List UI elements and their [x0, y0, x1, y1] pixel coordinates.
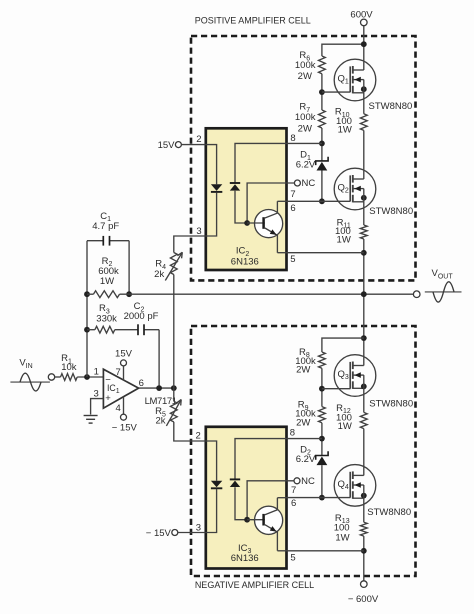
- wire D2 to Q4 gate node: [321, 465, 323, 498]
- IC2 NC terminal: [294, 180, 300, 186]
- svg-text:2W: 2W: [298, 71, 312, 82]
- svg-text:2W: 2W: [298, 123, 312, 134]
- node Q2 gate junction: [319, 198, 325, 204]
- svg-text:1W: 1W: [338, 124, 352, 135]
- ground: [84, 416, 98, 424]
- wire 600V to Q1 drain: [363, 26, 365, 70]
- svg-text:5: 5: [290, 254, 295, 265]
- node IC2 pin 5 junction: [361, 250, 367, 256]
- optocoupler IC3 6N136 box: [206, 427, 287, 569]
- svg-text:−: −: [105, 375, 111, 386]
- svg-text:2W: 2W: [296, 365, 310, 376]
- node Q2 source junction: [361, 195, 367, 201]
- wire R7 to D1: [321, 128, 323, 161]
- svg-text:− 15V: − 15V: [112, 423, 138, 434]
- IC2 pin 8 internal wire: [235, 143, 287, 183]
- IC2 photodiode: [230, 182, 240, 184]
- IC3 pin 2 internal wire: [206, 441, 217, 481]
- svg-text:6N136: 6N136: [231, 553, 259, 564]
- svg-text:− 15V: − 15V: [146, 528, 172, 539]
- IC2 phototransistor: [247, 201, 283, 252]
- IC2 pin 5 internal wire: [277, 252, 286, 254]
- node Q4 gate junction: [319, 495, 325, 501]
- op-amp output wire: [139, 387, 174, 389]
- wire IC2 pin 6 and Q2 gate: [287, 200, 351, 202]
- op-amp negative supply -15V: [123, 397, 125, 415]
- svg-text:1W: 1W: [338, 421, 352, 432]
- node VOUT junction: [361, 291, 367, 297]
- svg-text:6.2V: 6.2V: [296, 159, 316, 170]
- svg-text:2W: 2W: [296, 417, 310, 428]
- IC3 photodiode: [230, 478, 240, 480]
- node IC3 pin 5 junction: [361, 548, 367, 554]
- transistor Q2 STW8N80: [334, 168, 376, 210]
- resistor R11 100 1W: [360, 225, 367, 239]
- IC2 LED: [211, 184, 222, 191]
- svg-text:7: 7: [291, 485, 296, 496]
- svg-text:6.2V: 6.2V: [296, 454, 316, 465]
- transistor Q1 STW8N80: [334, 59, 376, 101]
- resistor R10 100 1W: [360, 114, 367, 131]
- resistor R7 100k 2W: [319, 110, 326, 128]
- capacitor C2: [115, 329, 159, 331]
- svg-text:+: +: [105, 393, 111, 404]
- node R2 right junction: [126, 291, 132, 297]
- VOUT sine symbol: [425, 291, 462, 293]
- wire R9 to D2: [321, 423, 323, 456]
- wire C1 right to R2 node: [128, 241, 130, 295]
- wire R12 to Q4 drain: [363, 429, 365, 476]
- svg-text:2k: 2k: [155, 416, 165, 427]
- zener diode D2 6.2V: [316, 451, 328, 459]
- IC3 LED cathode wire to pin 3: [206, 489, 217, 533]
- negative amplifier cell dashed box: [191, 326, 416, 576]
- wire IC3 pin 5 to rail: [287, 550, 364, 552]
- wire R5 to IC3 pin 2: [174, 422, 206, 441]
- IC3 pin 8 internal wire: [235, 439, 287, 480]
- wire Q2 source to R11: [363, 189, 365, 225]
- svg-text:330k: 330k: [96, 314, 117, 325]
- IC2 base node junction: [244, 220, 250, 226]
- node Q1 gate junction: [319, 89, 325, 95]
- potentiometer R5 2k: [173, 388, 175, 401]
- svg-text:POSITIVE AMPLIFIER CELL: POSITIVE AMPLIFIER CELL: [195, 16, 311, 26]
- IC3 phototransistor: [247, 498, 283, 551]
- wire IC2 pin 5 to rail: [287, 252, 364, 254]
- wire Q4 source to R13: [363, 485, 365, 522]
- non-inverting input wire: [91, 399, 104, 415]
- svg-text:− 600V: − 600V: [348, 594, 379, 605]
- svg-text:1: 1: [94, 366, 99, 377]
- node Q3 source junction: [361, 384, 367, 390]
- wire branch to R8: [322, 338, 364, 352]
- svg-text:100k: 100k: [295, 112, 316, 123]
- node C2 feedback junction: [156, 385, 162, 391]
- wire R8 to Q3 gate node: [321, 368, 323, 406]
- op-amp positive supply 15V: [123, 366, 125, 381]
- VOUT terminal: [413, 291, 420, 298]
- wire R6 to Q1 gate node: [321, 74, 323, 110]
- svg-text:STW8N80: STW8N80: [367, 507, 411, 518]
- wire 600V branch to R6: [322, 44, 364, 56]
- node IC2 pin8 junction: [319, 141, 325, 147]
- svg-text:7: 7: [290, 189, 295, 200]
- optocoupler IC2 6N136 box: [206, 128, 287, 270]
- svg-text:STW8N80: STW8N80: [369, 206, 413, 217]
- resistor R9 100k 2W: [319, 407, 326, 423]
- resistor R8 100k 2W: [319, 352, 326, 368]
- Q3 gate wire: [322, 388, 351, 390]
- node Q1 source junction: [361, 86, 367, 92]
- svg-text:4.7 pF: 4.7 pF: [92, 221, 119, 232]
- wire IC2 pin 8 to node: [287, 142, 322, 144]
- svg-text:10k: 10k: [61, 362, 77, 373]
- node 600V branch junction: [361, 41, 367, 47]
- svg-text:1W: 1W: [335, 533, 349, 544]
- resistor R6 100k 2W: [319, 56, 326, 74]
- capacitor C1: [87, 240, 129, 242]
- IC2 pin 6 internal wire: [277, 200, 286, 202]
- zener diode D1 6.2V: [316, 157, 328, 165]
- IC2 LED cathode wire to pin 3: [206, 193, 217, 237]
- wire R3 left: [87, 329, 95, 331]
- svg-text:8: 8: [290, 133, 295, 144]
- transistor Q3 STW8N80: [334, 355, 376, 397]
- node R2 left junction: [84, 291, 90, 297]
- svg-text:3: 3: [93, 388, 98, 399]
- wire R10 to Q2 drain: [363, 130, 365, 179]
- IC3 photodiode anode wire to base node: [235, 487, 247, 520]
- wire feedback line to output rail: [87, 293, 93, 295]
- svg-text:STW8N80: STW8N80: [369, 101, 413, 112]
- resistor R1: [61, 374, 78, 381]
- node R4 R5 output junction: [171, 385, 177, 391]
- input node vertical wire: [86, 241, 88, 377]
- positive amplifier cell dashed box: [191, 36, 416, 280]
- resistor R3: [95, 326, 115, 333]
- svg-text:2k: 2k: [154, 269, 164, 280]
- svg-text:100k: 100k: [295, 60, 316, 71]
- svg-text:2: 2: [196, 134, 201, 145]
- op-amp IC1 LM7171: [103, 369, 138, 408]
- wire Q1 source to R10: [363, 80, 365, 114]
- node inverting input junction: [84, 374, 90, 380]
- node Q4 source junction: [361, 493, 367, 499]
- svg-text:6N136: 6N136: [231, 256, 259, 267]
- wire C2 down to op-amp output: [158, 330, 160, 388]
- node R3 left junction: [84, 327, 90, 333]
- svg-text:5: 5: [290, 552, 295, 563]
- wire IC3 pin 8 to node: [287, 438, 322, 440]
- node R8 branch junction: [361, 335, 367, 341]
- wire R4 to output node: [173, 275, 175, 389]
- svg-text:600V: 600V: [350, 9, 373, 20]
- svg-text:15V: 15V: [158, 140, 176, 151]
- wire Q3 source to R12: [363, 375, 365, 412]
- svg-text:1W: 1W: [100, 276, 114, 287]
- svg-text:2: 2: [195, 431, 200, 442]
- VIN terminal: [48, 374, 54, 380]
- wire D1 to Q2 gate node: [321, 171, 323, 202]
- svg-text:6: 6: [139, 378, 144, 389]
- wire R11 down to negative cell: [363, 239, 365, 366]
- svg-text:8: 8: [290, 428, 295, 439]
- node IC3 pin8 junction: [319, 436, 325, 442]
- svg-text:15V: 15V: [115, 348, 133, 359]
- svg-text:4: 4: [116, 403, 121, 414]
- resistor R2: [93, 291, 119, 298]
- -600V terminal: [361, 581, 368, 588]
- IC3 pin 5 internal wire: [277, 550, 286, 552]
- svg-text:NC: NC: [301, 476, 315, 487]
- IC2 pin 7 base wire: [247, 183, 294, 223]
- resistor R12 100 1W: [360, 412, 367, 428]
- Q1 gate wire: [322, 91, 351, 93]
- IC2 photodiode anode wire to base node: [235, 191, 247, 223]
- svg-text:STW8N80: STW8N80: [369, 398, 413, 409]
- wire R1 to inverting input: [77, 376, 103, 378]
- IC3 pin 6 internal wire: [277, 497, 286, 499]
- wire R13 to -600V terminal: [363, 536, 365, 581]
- svg-text:3: 3: [196, 226, 201, 237]
- svg-text:2000 pF: 2000 pF: [124, 311, 159, 322]
- resistor R13 100 1W: [360, 522, 367, 536]
- IC3 LED: [211, 481, 222, 488]
- svg-text:6: 6: [291, 498, 296, 509]
- wire IC3 pin 6 and Q4 gate: [287, 497, 351, 499]
- svg-text:6: 6: [290, 203, 295, 214]
- svg-text:1W: 1W: [337, 235, 351, 246]
- svg-text:NEGATIVE AMPLIFIER CELL: NEGATIVE AMPLIFIER CELL: [195, 580, 314, 590]
- IC3 base node junction: [244, 517, 250, 523]
- potentiometer R4 2k: [170, 253, 177, 275]
- IC3 NC terminal: [294, 478, 300, 484]
- node Q3 gate junction: [319, 386, 325, 392]
- IC2 pin 2 internal wire: [206, 145, 217, 185]
- svg-text:7: 7: [116, 367, 121, 378]
- wire IC2 pin 3 to R4: [174, 236, 206, 253]
- wire VIN to R1: [55, 376, 61, 378]
- transistor Q4 STW8N80: [334, 465, 376, 507]
- IC3 pin 7 base wire: [247, 481, 294, 520]
- svg-text:NC: NC: [302, 178, 316, 189]
